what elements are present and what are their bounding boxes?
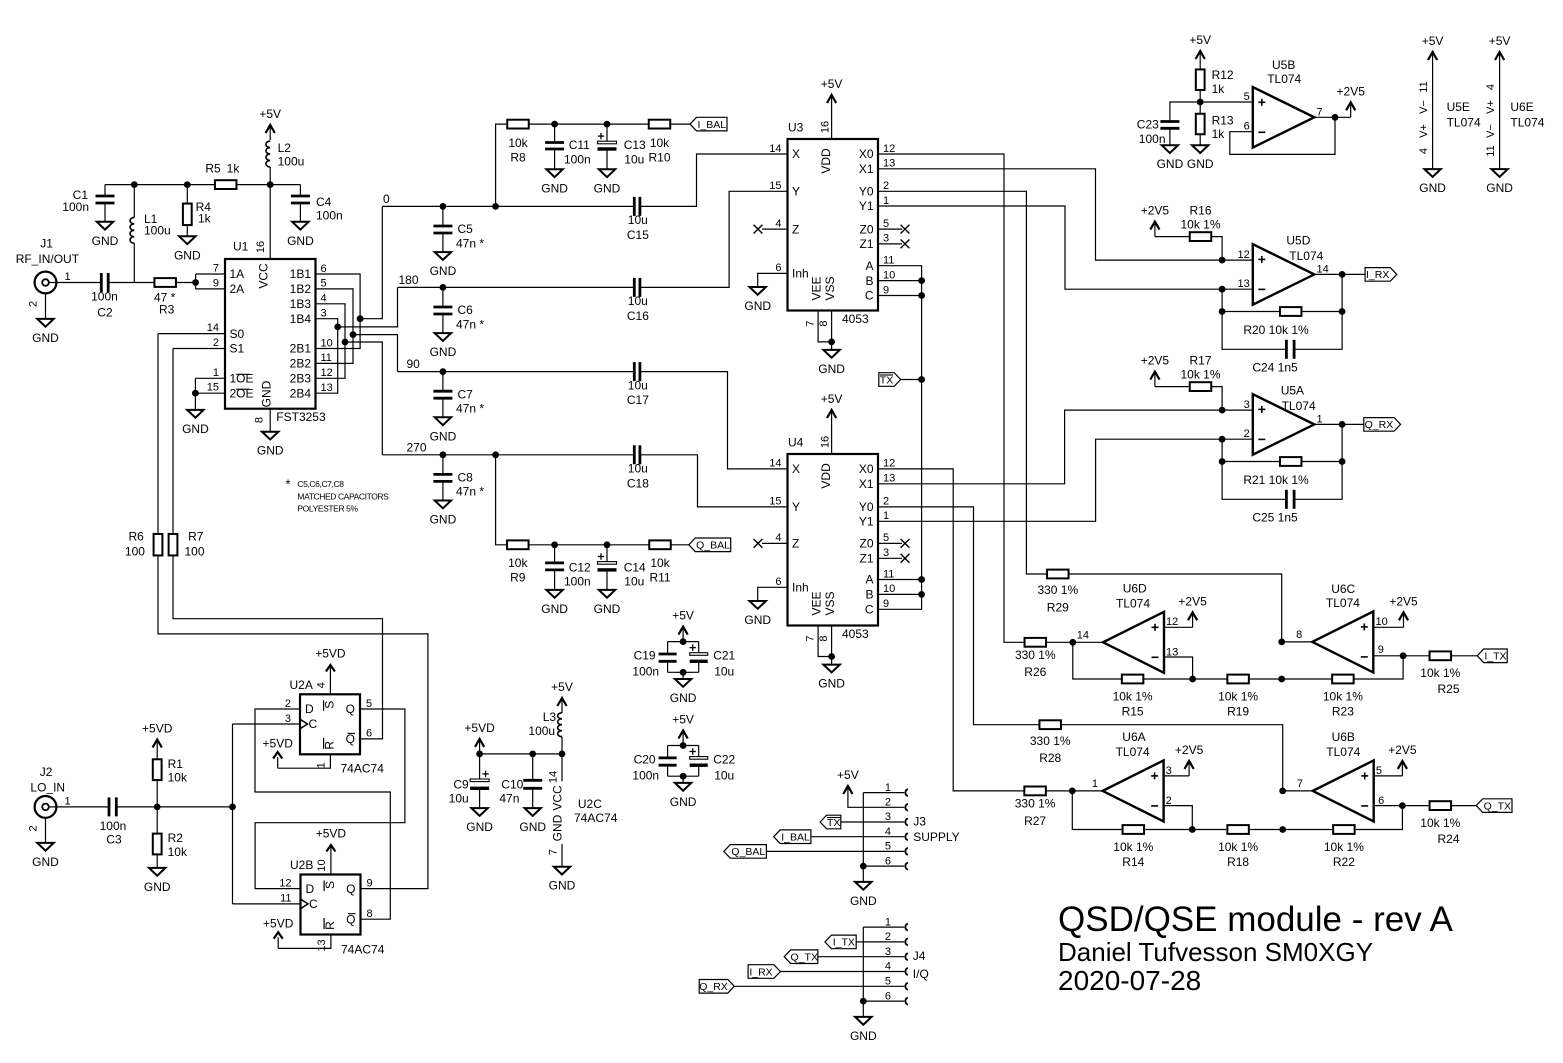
- resistor R29 330 1%: [1047, 570, 1069, 579]
- junction U6B- in: [1399, 802, 1406, 809]
- svg-text:100n: 100n: [564, 575, 591, 589]
- junction R9 branch: [492, 451, 499, 458]
- ground C8: [435, 501, 451, 509]
- wire R15 row: [1073, 642, 1122, 679]
- wire R9 to C12 C14 R11: [529, 544, 649, 546]
- svg-text:6: 6: [321, 263, 327, 275]
- svg-text:Y: Y: [792, 500, 800, 514]
- wire I_RX to J4 pin4: [780, 971, 904, 973]
- svg-text:10k 1%: 10k 1%: [1420, 816, 1460, 830]
- svg-text:1: 1: [65, 795, 71, 807]
- svg-text:14: 14: [769, 458, 781, 470]
- svg-text:Daniel Tufvesson SM0XGY: Daniel Tufvesson SM0XGY: [1058, 937, 1373, 967]
- svg-text:I/Q: I/Q: [913, 967, 929, 981]
- resistor R28 330 1%: [1039, 720, 1061, 729]
- wire U4 VEE VSS: [818, 626, 832, 657]
- junction C7: [440, 368, 447, 375]
- svg-text:4: 4: [316, 682, 328, 688]
- resistor R9 10k: [507, 540, 529, 549]
- wire R29 to U6C out: [1069, 574, 1282, 642]
- wire I_BAL to J3 pin4: [811, 836, 904, 838]
- svg-text:L3: L3: [543, 710, 557, 724]
- svg-text:47n *: 47n *: [456, 402, 484, 416]
- flip-flop U2A 74AC74: [300, 694, 360, 754]
- svg-text:Inh: Inh: [792, 581, 809, 595]
- svg-text:Y1: Y1: [859, 515, 874, 529]
- svg-text:U2B: U2B: [290, 858, 313, 872]
- svg-text:R2: R2: [168, 831, 184, 845]
- svg-text:15: 15: [769, 180, 781, 192]
- resistor R20 10k 1%: [1280, 307, 1302, 316]
- svg-text:13: 13: [321, 382, 333, 394]
- ic U4 4053: [788, 454, 879, 626]
- svg-text:R8: R8: [510, 151, 526, 165]
- op-amp U6B: [1313, 760, 1374, 821]
- svg-text:+2V5: +2V5: [1389, 594, 1418, 608]
- svg-text:TL074: TL074: [1289, 249, 1323, 263]
- wire U6C out: [1282, 641, 1313, 643]
- junction U6D out node: [1069, 639, 1076, 646]
- wire net 270 row: [382, 454, 634, 456]
- svg-text:C15: C15: [627, 228, 649, 242]
- svg-text:10k 1%: 10k 1%: [1218, 690, 1258, 704]
- svg-text:Q_TX: Q_TX: [1484, 800, 1511, 812]
- svg-text:VDD: VDD: [819, 463, 833, 489]
- inductor L1: [133, 185, 135, 218]
- wire U2B D loop: [255, 709, 405, 889]
- svg-text:7: 7: [1297, 778, 1303, 790]
- capacitor C23 100n: [1160, 120, 1179, 123]
- ground C13: [599, 169, 615, 177]
- svg-text:74AC74: 74AC74: [574, 811, 618, 825]
- svg-text:U2C: U2C: [578, 797, 602, 811]
- svg-text:QSD/QSE module - rev A: QSD/QSE module - rev A: [1058, 900, 1454, 939]
- resistor R10 10k: [649, 120, 671, 129]
- svg-text:100n: 100n: [1139, 132, 1166, 146]
- wire R8 branch: [496, 124, 507, 206]
- resistor R12 1k: [1199, 66, 1201, 69]
- inductor L2: [266, 141, 270, 167]
- svg-text:4: 4: [1418, 148, 1430, 154]
- svg-text:16: 16: [820, 121, 832, 133]
- ground C1: [97, 222, 113, 230]
- wire U6D+ to 2V5: [1164, 626, 1193, 628]
- tag Q_RX J4: [699, 980, 734, 994]
- svg-text:3: 3: [1166, 765, 1172, 777]
- svg-text:8: 8: [818, 320, 830, 326]
- svg-text:6: 6: [1244, 121, 1250, 133]
- capacitor C10 47n: [532, 754, 534, 780]
- power +2V5 U6A: [1188, 763, 1190, 776]
- tag I_TX J4: [825, 935, 856, 949]
- svg-text:TL074: TL074: [1326, 745, 1360, 759]
- svg-text:Q_RX: Q_RX: [699, 981, 728, 993]
- wire U6A+ to 2V5: [1164, 775, 1190, 777]
- power unit U5E: [1432, 54, 1434, 67]
- wire R27 to U6A out: [1046, 790, 1103, 792]
- power +2V5 U5B: [1350, 104, 1352, 117]
- svg-text:GND: GND: [818, 362, 845, 376]
- svg-text:1: 1: [883, 510, 889, 522]
- svg-text:MATCHED CAPACITORS: MATCHED CAPACITORS: [297, 491, 389, 501]
- svg-text:+5VD: +5VD: [315, 647, 346, 661]
- junction R19/R23: [1278, 676, 1285, 683]
- inductor L3: [558, 713, 562, 737]
- resistor R17 10k 1%: [1190, 382, 1212, 391]
- wire J1 pin1: [49, 282, 102, 284]
- svg-text:14: 14: [548, 771, 560, 783]
- svg-text:R15: R15: [1122, 704, 1144, 718]
- svg-text:I_TX: I_TX: [833, 937, 855, 949]
- svg-text:Z: Z: [792, 222, 799, 236]
- wire U6B out: [1283, 790, 1313, 792]
- svg-text:10: 10: [883, 583, 895, 595]
- svg-text:RF_IN/OUT: RF_IN/OUT: [16, 252, 80, 266]
- svg-text:VDD: VDD: [819, 148, 833, 174]
- svg-text:1k: 1k: [1212, 82, 1226, 96]
- svg-text:10k: 10k: [650, 136, 670, 150]
- svg-text:C12: C12: [569, 560, 591, 574]
- svg-text:10u: 10u: [628, 294, 648, 308]
- ground C23: [1162, 145, 1178, 153]
- svg-text:47n *: 47n *: [456, 236, 484, 250]
- junction J4 pin6 gnd: [860, 998, 867, 1005]
- wire U5A out: [1314, 423, 1364, 425]
- wire S1 to R7: [173, 348, 225, 350]
- wire U4 Z noconnect: [762, 542, 788, 544]
- svg-text:B: B: [865, 274, 873, 288]
- junction U5D+ in: [1219, 257, 1226, 264]
- svg-text:Z: Z: [792, 537, 799, 551]
- svg-text:GND: GND: [1157, 157, 1184, 171]
- ground C4: [292, 222, 308, 230]
- wire U3 Z1 noconnect: [878, 243, 902, 245]
- svg-text:GND: GND: [257, 444, 284, 458]
- ground C9: [471, 808, 487, 816]
- svg-text:R1: R1: [168, 757, 184, 771]
- svg-text:4: 4: [775, 218, 781, 230]
- resistor R14 10k 1%: [1123, 825, 1145, 834]
- svg-text:330 1%: 330 1%: [1037, 583, 1078, 597]
- svg-text:+5VD: +5VD: [263, 917, 294, 931]
- svg-text:TL074: TL074: [1282, 399, 1316, 413]
- wire R21 feedback: [1222, 439, 1280, 461]
- svg-text:100n: 100n: [91, 290, 118, 304]
- svg-text:1B4: 1B4: [290, 312, 312, 326]
- op-amp U6D: [1103, 612, 1164, 673]
- svg-text:R6: R6: [129, 530, 145, 544]
- svg-text:+5V: +5V: [672, 609, 694, 623]
- wire ABC bus: [878, 266, 922, 610]
- resistor R4 1k: [186, 185, 188, 204]
- resistor R8 10k: [507, 120, 529, 129]
- svg-text:+5V: +5V: [837, 768, 859, 782]
- junction net 90: [350, 331, 357, 338]
- svg-text:100n: 100n: [632, 769, 659, 783]
- svg-text:LO_IN: LO_IN: [30, 781, 65, 795]
- junction R15/R19: [1189, 676, 1196, 683]
- svg-text:14: 14: [769, 143, 781, 155]
- resistor R15 10k 1%: [1122, 675, 1144, 684]
- svg-text:GND: GND: [551, 814, 565, 841]
- wire U4 Y1 to U5A-: [878, 439, 1253, 521]
- wire U5B out: [1314, 116, 1350, 118]
- wire R16 left: [1155, 236, 1190, 238]
- junction U4 VSS: [828, 653, 835, 660]
- svg-text:330 1%: 330 1%: [1015, 797, 1056, 811]
- svg-text:R28: R28: [1039, 751, 1061, 765]
- svg-text:R26: R26: [1024, 665, 1046, 679]
- svg-text:10k 1%: 10k 1%: [1113, 690, 1153, 704]
- svg-text:Y: Y: [792, 185, 800, 199]
- wire U1 GND pin8: [269, 409, 271, 432]
- tag I_RX J4: [748, 965, 780, 979]
- svg-text:15: 15: [769, 496, 781, 508]
- resistor R19 10k 1%: [1227, 675, 1249, 684]
- svg-text:1: 1: [885, 916, 891, 928]
- svg-text:9: 9: [883, 284, 889, 296]
- junction C10: [529, 751, 536, 758]
- connector J2 LO_IN: [35, 796, 57, 818]
- svg-text:TL074: TL074: [1116, 597, 1150, 611]
- svg-text:330 1%: 330 1%: [1030, 734, 1071, 748]
- power +2V5 U6D: [1192, 614, 1194, 627]
- ground J4: [855, 1017, 871, 1025]
- resistor R27 330 1%: [1024, 787, 1046, 796]
- wire U3 Y0 to R29: [878, 191, 1047, 574]
- resistor R25 10k 1%: [1430, 651, 1452, 660]
- svg-text:330 1%: 330 1%: [1015, 648, 1056, 662]
- svg-text:10k: 10k: [508, 136, 528, 150]
- svg-text:3: 3: [883, 547, 889, 559]
- svg-text:7: 7: [804, 320, 816, 326]
- svg-text:10k: 10k: [508, 556, 528, 570]
- tag TX J3: [820, 815, 841, 829]
- svg-text:C5: C5: [458, 222, 474, 236]
- svg-text:GND: GND: [1486, 181, 1513, 195]
- junction U3 B: [918, 277, 925, 284]
- svg-text:4053: 4053: [842, 312, 869, 326]
- capacitor C3 100n: [108, 797, 111, 816]
- svg-text:100n: 100n: [62, 200, 89, 214]
- junction L1 top: [131, 181, 138, 188]
- svg-text:U5A: U5A: [1281, 383, 1304, 397]
- svg-text:C14: C14: [624, 560, 646, 574]
- junction U3 VSS: [828, 339, 835, 346]
- wire U5B feedback: [1230, 117, 1335, 154]
- wire J4 pin6: [863, 1000, 904, 1002]
- svg-text:Q_BAL: Q_BAL: [731, 846, 765, 858]
- wire J2 pin1: [49, 806, 109, 808]
- svg-text:7: 7: [548, 849, 560, 855]
- svg-text:+2V5: +2V5: [1388, 743, 1417, 757]
- svg-text:I_RX: I_RX: [749, 966, 772, 978]
- svg-text:S1: S1: [230, 342, 245, 356]
- wire net 90 row: [398, 371, 635, 373]
- svg-text:R16: R16: [1189, 204, 1211, 218]
- svg-text:270: 270: [407, 440, 427, 454]
- svg-text:TL074: TL074: [1447, 115, 1481, 129]
- svg-text:GND: GND: [541, 181, 568, 195]
- svg-text:C24 1n5: C24 1n5: [1252, 361, 1298, 375]
- svg-text:5: 5: [1244, 91, 1250, 103]
- svg-text:13: 13: [883, 158, 895, 170]
- svg-text:S: S: [323, 701, 337, 709]
- wire U4 X0 to R27: [878, 469, 1025, 791]
- svg-text:+5V: +5V: [821, 392, 843, 406]
- ground J3: [855, 882, 871, 890]
- svg-text:D: D: [305, 702, 314, 716]
- svg-text:GND: GND: [182, 422, 209, 436]
- svg-text:10u: 10u: [624, 153, 644, 167]
- svg-text:C10: C10: [501, 777, 523, 791]
- svg-text:10u: 10u: [714, 769, 734, 783]
- svg-text:4053: 4053: [842, 627, 869, 641]
- ground C14: [599, 590, 615, 598]
- junction R18/R22: [1279, 826, 1286, 833]
- power +5V R12: [1199, 53, 1201, 66]
- svg-text:+5V: +5V: [1189, 33, 1211, 47]
- svg-text:10k 1%: 10k 1%: [1180, 368, 1220, 382]
- svg-text:12: 12: [883, 143, 895, 155]
- wire net 0 link: [360, 206, 382, 318]
- svg-text:13: 13: [316, 939, 328, 951]
- svg-text:Inh: Inh: [792, 267, 809, 281]
- tag I_TX: [1477, 649, 1507, 663]
- capacitor C15 10u: [633, 197, 636, 216]
- svg-text:U6B: U6B: [1332, 730, 1355, 744]
- svg-text:R25: R25: [1437, 682, 1459, 696]
- ground C19 C21: [675, 679, 691, 687]
- svg-text:GND: GND: [32, 331, 59, 345]
- svg-text:9: 9: [883, 598, 889, 610]
- svg-text:5: 5: [366, 698, 372, 710]
- wire +5V rail C1 to C4: [105, 184, 300, 186]
- svg-text:D: D: [306, 882, 315, 896]
- svg-text:2A: 2A: [230, 282, 245, 296]
- svg-text:TX: TX: [827, 817, 840, 829]
- svg-text:11: 11: [280, 893, 291, 905]
- svg-text:2020-07-28: 2020-07-28: [1058, 965, 1201, 996]
- power +5VD C9: [479, 741, 481, 754]
- svg-text:+5V: +5V: [1422, 34, 1444, 48]
- wire R8 to C11 C13 R10: [529, 123, 650, 125]
- svg-text:R22: R22: [1333, 855, 1355, 869]
- svg-text:10: 10: [883, 269, 895, 281]
- power +2V5 R16: [1154, 224, 1156, 237]
- flip-flop U2B 74AC74: [301, 875, 361, 935]
- wire U3 Y1 to U5D-: [878, 206, 1253, 289]
- svg-text:GND: GND: [430, 345, 457, 359]
- ground U4 Inh: [750, 601, 766, 609]
- svg-text:R27: R27: [1024, 814, 1046, 828]
- svg-text:2: 2: [1244, 428, 1250, 440]
- wire net 0 row: [382, 205, 634, 207]
- resistor R16 10k 1%: [1190, 232, 1212, 241]
- svg-text:X: X: [792, 462, 800, 476]
- junction U4 B: [918, 591, 925, 598]
- svg-text:R7: R7: [188, 530, 204, 544]
- capacitor C18 10u: [633, 445, 636, 464]
- svg-text:FST3253: FST3253: [276, 410, 326, 424]
- svg-text:7: 7: [1317, 106, 1323, 118]
- svg-text:5: 5: [1376, 765, 1382, 777]
- svg-text:10k: 10k: [168, 771, 188, 785]
- svg-text:12: 12: [279, 877, 291, 889]
- junction R14/R18: [1189, 826, 1196, 833]
- svg-text:GND: GND: [519, 820, 546, 834]
- junction U5A out: [1339, 421, 1346, 428]
- power +5VD U2B reset: [278, 935, 331, 949]
- resistor R5 1k: [215, 180, 237, 189]
- svg-text:12: 12: [1166, 616, 1178, 628]
- wire U4 Z1 noconnect: [878, 557, 902, 559]
- svg-text:C11: C11: [569, 138, 590, 152]
- svg-text:100n: 100n: [564, 153, 591, 167]
- svg-text:TL074: TL074: [1510, 115, 1544, 129]
- capacitor C6 47n: [442, 287, 444, 307]
- svg-text:GND: GND: [260, 380, 274, 407]
- svg-text:10k 1%: 10k 1%: [1218, 840, 1258, 854]
- svg-text:X1: X1: [859, 162, 874, 176]
- tag TX mid: [879, 373, 901, 387]
- svg-text:U5E: U5E: [1447, 100, 1470, 114]
- svg-text:10u: 10u: [449, 791, 469, 805]
- power pins U2C: [561, 754, 563, 781]
- junction U3 C: [918, 292, 925, 299]
- svg-text:R18: R18: [1227, 855, 1249, 869]
- svg-text:C19: C19: [634, 649, 656, 663]
- svg-text:16: 16: [255, 241, 267, 253]
- wire U1 VCC pin16: [269, 185, 271, 259]
- op-amp U5B: [1253, 87, 1315, 148]
- junction U5A+ in: [1219, 407, 1226, 414]
- svg-text:9: 9: [367, 877, 373, 889]
- svg-text:R17: R17: [1189, 354, 1211, 368]
- svg-text:10k 1%: 10k 1%: [1420, 666, 1460, 680]
- resistor R26 330 1%: [1025, 638, 1047, 647]
- svg-text:4: 4: [885, 826, 891, 838]
- svg-text:10k 1%: 10k 1%: [1180, 218, 1220, 232]
- svg-text:GND: GND: [1187, 157, 1214, 171]
- svg-text:C17: C17: [627, 393, 649, 407]
- capacitor C12 100n: [554, 545, 556, 563]
- svg-text:GND: GND: [144, 880, 171, 894]
- svg-text:1B1: 1B1: [290, 267, 312, 281]
- wire U6B- node: [1374, 805, 1429, 807]
- svg-text:2: 2: [28, 825, 40, 831]
- svg-text:1: 1: [885, 782, 891, 794]
- svg-text:1: 1: [1092, 778, 1098, 790]
- svg-text:R3: R3: [159, 303, 175, 317]
- svg-text:R12: R12: [1212, 68, 1234, 82]
- svg-text:A: A: [865, 259, 873, 273]
- op-amp U6C: [1312, 611, 1373, 672]
- svg-text:90: 90: [407, 357, 421, 371]
- svg-text:8: 8: [367, 908, 373, 920]
- wire U6C+ to 2V5: [1373, 626, 1403, 628]
- wire U4 Inh gnd: [758, 587, 788, 601]
- wire C24 feedback: [1222, 312, 1286, 350]
- ground U4 VEE/VSS: [823, 665, 839, 673]
- svg-text:Z0: Z0: [859, 537, 873, 551]
- tag I_BAL J3: [774, 830, 811, 844]
- svg-text:C2: C2: [97, 305, 113, 319]
- svg-text:+5VD: +5VD: [316, 827, 347, 841]
- junction C8: [440, 451, 447, 458]
- svg-text:3: 3: [1244, 399, 1250, 411]
- wire R14 row: [1072, 791, 1121, 830]
